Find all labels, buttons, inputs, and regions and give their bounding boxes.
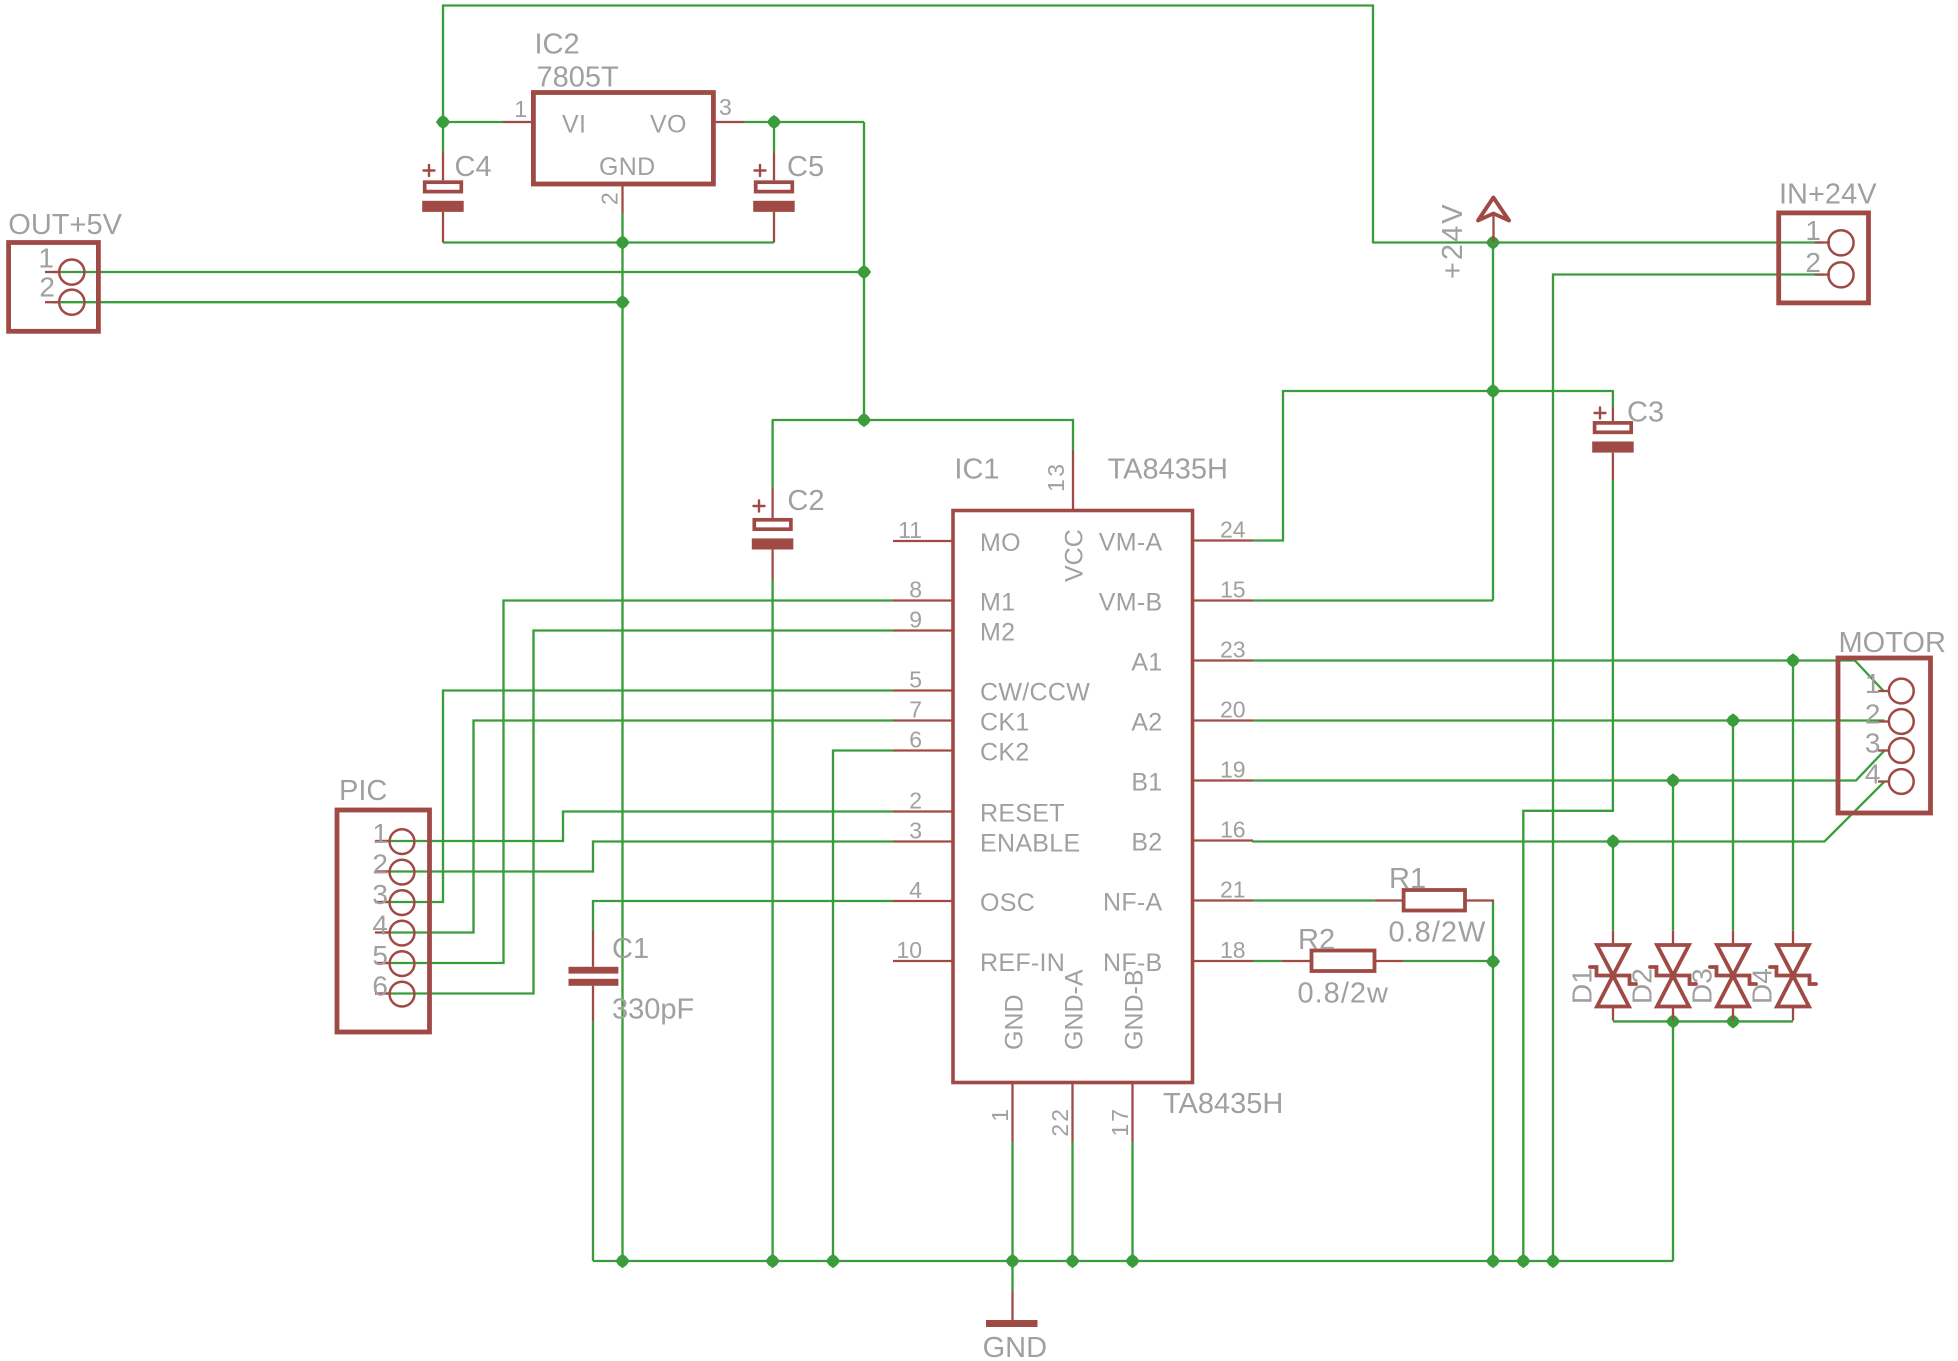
svg-text:6: 6 — [372, 971, 388, 1002]
wire GND bus — [593, 1260, 1673, 1262]
svg-text:VM-B: VM-B — [1099, 589, 1163, 617]
wire C4-C5 ground link — [443, 241, 774, 243]
svg-text:C3: C3 — [1627, 397, 1664, 429]
wire GND symbol lead — [1011, 1261, 1013, 1291]
svg-text:R1: R1 — [1389, 863, 1426, 895]
wire C3 bottom jog to GND bus — [1523, 479, 1613, 1261]
wire R junction down to GND bus — [1492, 962, 1494, 1262]
wire A2 junction down to D3 — [1732, 721, 1734, 931]
wire C2 bottom to GND bus — [771, 579, 773, 1261]
wire PIC2 to ENABLE — [382, 842, 893, 872]
wire PIC5 to M1 — [382, 601, 893, 964]
svg-text:7805T: 7805T — [537, 62, 620, 94]
wire PIC4 to CK1 — [382, 721, 893, 933]
svg-text:1: 1 — [372, 818, 388, 849]
diode D2 — [1627, 931, 1697, 1021]
junction node 12 — [1606, 834, 1620, 848]
svg-text:IC2: IC2 — [535, 29, 580, 61]
wire C4 top lead — [442, 122, 444, 153]
svg-text:D4: D4 — [1747, 968, 1778, 1004]
junction node 9 — [1786, 653, 1800, 667]
junction node 16 — [615, 1254, 629, 1268]
voltage regulator IC2 7805T — [503, 29, 744, 214]
junction node 2 — [767, 115, 781, 129]
svg-text:RESET: RESET — [980, 800, 1065, 828]
wire OUT+5V pin 2 to GND — [52, 301, 623, 303]
svg-text:0.8/2W: 0.8/2W — [1389, 917, 1487, 949]
diode D1 — [1567, 931, 1637, 1021]
svg-text:C4: C4 — [455, 151, 492, 183]
svg-text:16: 16 — [1220, 817, 1246, 843]
wire VCC rail to IC1 pin 13 — [773, 420, 1073, 451]
svg-text:2: 2 — [1865, 699, 1881, 730]
junction node 3 — [615, 235, 629, 249]
svg-text:VM-A: VM-A — [1099, 529, 1163, 557]
svg-text:24: 24 — [1220, 517, 1246, 543]
capacitor C5 — [753, 151, 824, 243]
junction node 21 — [1125, 1254, 1139, 1268]
svg-text:20: 20 — [1220, 697, 1246, 723]
junction node 20 — [1065, 1254, 1079, 1268]
svg-text:GND: GND — [1001, 994, 1029, 1050]
svg-text:VO: VO — [650, 111, 687, 139]
svg-text:3: 3 — [372, 879, 388, 910]
stepper driver IC1 TA8435H — [893, 451, 1283, 1142]
svg-text:1: 1 — [1805, 215, 1821, 246]
svg-text:TA8435H: TA8435H — [1108, 454, 1228, 486]
svg-text:GND: GND — [983, 1332, 1047, 1361]
capacitor C2 — [752, 485, 825, 579]
svg-text:C1: C1 — [612, 933, 649, 965]
svg-text:OSC: OSC — [980, 889, 1035, 917]
svg-text:VCC: VCC — [1061, 529, 1089, 582]
junction node 15 — [1726, 1014, 1740, 1028]
svg-text:PIC: PIC — [339, 775, 387, 807]
resistor R1 0.8/2W — [1375, 863, 1494, 949]
svg-text:9: 9 — [909, 607, 922, 633]
wire R1 to GND node — [1492, 901, 1494, 962]
svg-text:VI: VI — [562, 111, 586, 139]
svg-text:B1: B1 — [1131, 769, 1162, 797]
wire OSC to C1 — [593, 901, 893, 931]
svg-text:ENABLE: ENABLE — [980, 830, 1080, 858]
svg-text:22: 22 — [1047, 1107, 1073, 1137]
wire PIC3 to CW/CCW — [382, 691, 893, 903]
wire VM-A to +24V rail — [1253, 391, 1613, 541]
svg-text:TA8435H: TA8435H — [1163, 1088, 1283, 1120]
svg-text:23: 23 — [1220, 637, 1246, 663]
svg-text:C5: C5 — [787, 151, 824, 183]
svg-text:5: 5 — [909, 667, 922, 693]
svg-text:10: 10 — [896, 937, 922, 963]
svg-text:M1: M1 — [980, 589, 1015, 617]
supply symbol +24V — [1437, 198, 1509, 280]
wire CK2 to GND bus — [833, 751, 893, 1262]
svg-text:MO: MO — [980, 529, 1021, 557]
junction node 11 — [1666, 773, 1680, 787]
svg-text:OUT+5V: OUT+5V — [8, 209, 122, 241]
svg-text:GND: GND — [599, 153, 655, 181]
svg-text:2: 2 — [597, 192, 623, 205]
svg-text:D3: D3 — [1687, 968, 1718, 1004]
wire IC1 pin1 GND to bus — [1011, 1142, 1013, 1262]
junction node 1 — [436, 115, 450, 129]
wire OUT+5V pin 1 to +5V node — [52, 271, 864, 273]
wire +24V riser to VM rails — [1492, 243, 1494, 601]
wire NF-A to R1 — [1253, 899, 1375, 901]
junction node 10 — [1726, 713, 1740, 727]
wire PIC1 to RESET — [382, 812, 893, 842]
svg-text:IN+24V: IN+24V — [1779, 179, 1877, 211]
svg-text:D1: D1 — [1567, 968, 1598, 1004]
svg-text:3: 3 — [719, 94, 732, 120]
junction node 7 — [857, 413, 871, 427]
wire IC1 pin17 GND-B to bus — [1131, 1142, 1133, 1262]
svg-text:5: 5 — [372, 940, 388, 971]
svg-text:1: 1 — [38, 243, 54, 274]
svg-text:CK2: CK2 — [980, 739, 1030, 767]
junction node 5 — [857, 265, 871, 279]
wire 7805 GND down to bus — [621, 213, 623, 1261]
connector IN+24V — [1779, 179, 1877, 303]
connector OUT+5V — [8, 209, 122, 331]
capacitor C1 330pF — [569, 931, 695, 1026]
svg-text:15: 15 — [1220, 577, 1246, 603]
junction node 14 — [1666, 1014, 1680, 1028]
svg-text:6: 6 — [909, 727, 922, 753]
svg-text:M2: M2 — [980, 619, 1015, 647]
svg-text:3: 3 — [909, 818, 922, 844]
capacitor C3 — [1592, 397, 1664, 480]
svg-text:7: 7 — [909, 697, 922, 723]
junction node 22 — [1486, 1254, 1500, 1268]
wire IN+24V pin 2 to GND bus — [1553, 275, 1823, 1262]
junction node 24 — [1546, 1254, 1560, 1268]
svg-text:+24V: +24V — [1437, 202, 1469, 279]
wire NF-B to R2 — [1253, 960, 1282, 962]
svg-text:2: 2 — [39, 272, 55, 303]
junction node 18 — [826, 1254, 840, 1268]
svg-text:IC1: IC1 — [954, 454, 999, 486]
wire A1 to MOTOR pin 1 — [1253, 661, 1884, 692]
wire B1 to MOTOR pin 3 — [1253, 751, 1884, 781]
svg-text:0.8/2w: 0.8/2w — [1298, 978, 1389, 1010]
svg-text:4: 4 — [372, 910, 388, 941]
diode D3 — [1687, 931, 1757, 1021]
svg-text:2: 2 — [1805, 247, 1821, 278]
svg-text:2: 2 — [909, 788, 922, 814]
junction node 13 — [1486, 954, 1500, 968]
ground symbol GND — [983, 1291, 1047, 1361]
wire B2 junction down to D1 — [1612, 842, 1614, 931]
junction node 6 — [615, 295, 629, 309]
svg-text:18: 18 — [1220, 937, 1246, 963]
svg-text:4: 4 — [909, 877, 922, 903]
svg-text:21: 21 — [1220, 877, 1246, 903]
svg-text:A1: A1 — [1131, 649, 1162, 677]
wire B1 junction down to D2 — [1672, 781, 1674, 931]
svg-text:1: 1 — [514, 96, 527, 122]
svg-text:A2: A2 — [1131, 709, 1162, 737]
svg-text:REF-IN: REF-IN — [980, 949, 1065, 977]
svg-text:1: 1 — [987, 1107, 1013, 1122]
svg-text:NF-A: NF-A — [1103, 889, 1163, 917]
wire IC1 pin22 GND-A to bus — [1071, 1142, 1073, 1262]
wire C3 top lead — [1612, 391, 1614, 406]
wire VM-B to +24V riser — [1253, 599, 1493, 601]
resistor R2 0.8/2w — [1282, 924, 1404, 1010]
svg-text:3: 3 — [1865, 728, 1881, 759]
wire PIC6 to M2 — [382, 631, 893, 994]
svg-text:8: 8 — [909, 577, 922, 603]
wire junction to 7805 VI pin — [443, 121, 503, 123]
svg-text:B2: B2 — [1131, 829, 1162, 857]
diode D4 — [1747, 931, 1817, 1021]
wire B2 to MOTOR pin 4 — [1253, 782, 1884, 842]
wire A2 to MOTOR pin 2 — [1253, 719, 1885, 721]
wire +5V vertical to VCC rail — [863, 122, 865, 420]
wire C5 top lead — [773, 122, 775, 153]
svg-text:D2: D2 — [1627, 968, 1658, 1004]
svg-text:19: 19 — [1220, 757, 1246, 783]
wire R2 to GND node — [1404, 960, 1493, 962]
wire +24V rail to IN+24V pin 1 — [1373, 241, 1823, 243]
junction node 4 — [1486, 235, 1500, 249]
junction node 8 — [1486, 384, 1500, 398]
svg-text:330pF: 330pF — [612, 994, 694, 1026]
wire C1 bottom to GND bus — [592, 1021, 594, 1261]
svg-text:11: 11 — [898, 517, 922, 543]
svg-text:CW/CCW: CW/CCW — [980, 679, 1090, 707]
wire C2 top lead — [771, 420, 773, 488]
svg-text:13: 13 — [1043, 461, 1069, 492]
junction node 23 — [1516, 1254, 1530, 1268]
capacitor C4 — [422, 151, 491, 243]
svg-text:R2: R2 — [1298, 924, 1335, 956]
junction node 19 — [1005, 1254, 1019, 1268]
wire A1 junction down to D4 — [1792, 661, 1794, 931]
junction node 17 — [766, 1254, 780, 1268]
svg-text:C2: C2 — [787, 485, 824, 517]
wire +24V top rail — [443, 6, 1373, 243]
svg-text:GND-A: GND-A — [1061, 969, 1089, 1050]
svg-text:17: 17 — [1107, 1107, 1133, 1137]
svg-text:2: 2 — [372, 849, 388, 880]
svg-text:GND-B: GND-B — [1121, 969, 1149, 1050]
svg-text:CK1: CK1 — [980, 709, 1030, 737]
wire diode common return — [1613, 1020, 1793, 1022]
svg-text:1: 1 — [1865, 668, 1881, 699]
wire 7805 VO pin to +5V node — [744, 121, 864, 123]
connector PIC — [337, 775, 430, 1032]
svg-text:4: 4 — [1865, 759, 1881, 790]
svg-text:MOTOR: MOTOR — [1839, 627, 1946, 659]
connector MOTOR — [1838, 627, 1946, 813]
wire diode return to GND bus — [1672, 1021, 1674, 1261]
